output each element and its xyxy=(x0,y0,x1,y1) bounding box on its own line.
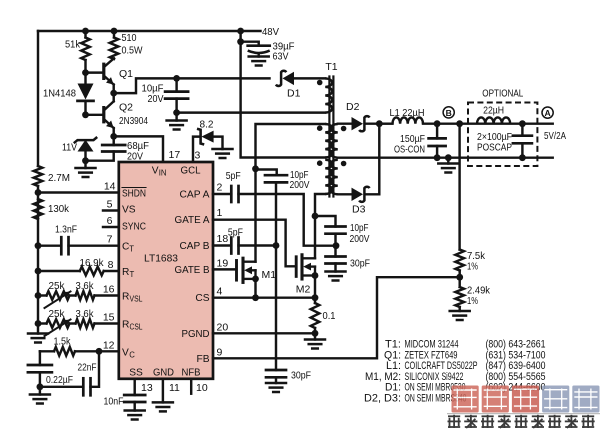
T1 primary winding 3 xyxy=(325,160,332,194)
ground below 0.1 xyxy=(305,338,325,341)
op-amp U1 LT1683 controller IC xyxy=(119,162,213,379)
svg-text:T: T xyxy=(130,270,135,279)
svg-text:16.9k: 16.9k xyxy=(80,257,105,269)
zener diode 8.2 xyxy=(197,129,204,145)
svg-text:0.5W: 0.5W xyxy=(122,45,143,57)
capacitor 1.3nF xyxy=(60,237,63,254)
node 0.22uF bottom xyxy=(37,383,44,390)
svg-text:7: 7 xyxy=(107,234,113,246)
watermark underline xyxy=(447,413,600,415)
svg-text:V: V xyxy=(152,166,159,177)
phase dot winding 2 xyxy=(317,125,323,131)
resistor 3.6k xyxy=(76,291,95,300)
node 510 top xyxy=(111,28,118,35)
ground below GND pin xyxy=(153,401,173,404)
svg-text:9: 9 xyxy=(217,346,223,358)
svg-text:18: 18 xyxy=(217,233,229,245)
node SHDN tap xyxy=(35,189,42,196)
svg-text:OS-CON: OS-CON xyxy=(394,144,425,156)
svg-text:VS: VS xyxy=(122,205,136,216)
svg-text:C: C xyxy=(129,350,135,359)
svg-text:0.22µF: 0.22µF xyxy=(46,374,73,386)
svg-text:51k: 51k xyxy=(65,39,81,51)
svg-text:3: 3 xyxy=(195,150,201,162)
resistor 3.6k xyxy=(76,319,95,328)
svg-text:FB: FB xyxy=(196,354,209,365)
svg-text:VSL: VSL xyxy=(130,295,144,304)
svg-text:Q1: Q1 xyxy=(119,68,133,80)
svg-text:V: V xyxy=(122,347,129,358)
node 11V anode / 68uF bottom xyxy=(82,157,89,164)
svg-text:15: 15 xyxy=(103,312,115,324)
ground below 11V zener xyxy=(76,167,96,170)
svg-text:63V: 63V xyxy=(273,51,289,63)
wire M2 source to CS xyxy=(314,276,316,298)
svg-text:20V: 20V xyxy=(127,150,143,162)
svg-text:1%: 1% xyxy=(467,295,478,307)
node Q1 base / 1N4148 top xyxy=(82,69,89,76)
potentiometer 25k element xyxy=(47,291,70,300)
svg-text:6: 6 xyxy=(107,215,113,227)
node 0.1 bottom xyxy=(312,330,319,337)
wire 48V top rail xyxy=(38,30,261,32)
node divider tap xyxy=(456,274,463,281)
svg-text:8.2: 8.2 xyxy=(200,118,214,130)
wire to L1 xyxy=(379,122,392,124)
capacitor 30pF (lower) xyxy=(266,369,286,372)
wire VIN pin 17 xyxy=(114,136,163,162)
node 48V branch xyxy=(237,28,244,35)
wire Q2 base xyxy=(86,114,104,116)
capacitor 10pF 200V (B-side) xyxy=(326,225,346,228)
ground below 10nF xyxy=(125,409,145,412)
transformer T1 core xyxy=(328,77,330,197)
wire SHDN pin 14 xyxy=(38,191,119,193)
svg-text:T: T xyxy=(129,245,134,254)
node POSCAP top xyxy=(519,120,526,127)
svg-text:CSL: CSL xyxy=(130,323,144,332)
svg-text:22µH: 22µH xyxy=(483,105,504,117)
svg-text:5: 5 xyxy=(107,199,113,211)
wire PGND pin 20 xyxy=(213,332,315,334)
zener diode 11V xyxy=(74,137,97,143)
wire M2 drain tap to C 10pF 200V (B-side) xyxy=(315,216,336,227)
svg-text:Q2: Q2 xyxy=(119,102,133,114)
svg-text:NFB: NFB xyxy=(182,368,201,379)
pin 5 VS stub xyxy=(103,209,119,211)
dashed OPTIONAL box xyxy=(468,103,537,167)
node RT tap xyxy=(35,268,42,275)
svg-text:3.6k: 3.6k xyxy=(76,308,95,320)
inductor L1 22uH xyxy=(393,117,424,123)
wire FB pin 9 to divider tap xyxy=(213,277,460,358)
wire output rail xyxy=(423,122,553,124)
phase dot secondary 2 xyxy=(341,161,347,167)
svg-text:M1: M1 xyxy=(262,269,277,281)
wire CS pin 4 xyxy=(213,296,315,298)
node A divider junction xyxy=(333,242,340,249)
node CT tap xyxy=(35,242,42,249)
node A circle xyxy=(542,107,553,118)
svg-text:16: 16 xyxy=(103,284,115,296)
wiper arrow xyxy=(45,292,71,309)
node FB divider tap xyxy=(456,120,463,127)
capacitor 10pF 200V (A-side) xyxy=(265,174,287,177)
pin 11 GND stub xyxy=(162,379,164,403)
svg-text:10nF: 10nF xyxy=(104,396,124,408)
capacitor 0.22uF xyxy=(39,351,41,365)
T1 primary winding 2 xyxy=(325,124,332,158)
wire CAP A to divider node A xyxy=(239,194,336,246)
svg-text:1: 1 xyxy=(217,207,223,219)
svg-text:R: R xyxy=(122,320,129,331)
svg-text:T1: T1 xyxy=(325,61,337,73)
svg-text:13: 13 xyxy=(141,382,153,394)
svg-text:20: 20 xyxy=(217,321,229,333)
resistor 510 0.5W xyxy=(113,31,115,38)
svg-text:1N4148: 1N4148 xyxy=(43,88,76,100)
wire GATE B pin 19 to M1 gate xyxy=(213,268,236,270)
T1 primary winding 1 xyxy=(325,78,332,112)
ground below 10uF xyxy=(167,119,187,122)
svg-text:SHDN: SHDN xyxy=(122,189,146,200)
svg-text:22nF: 22nF xyxy=(78,361,97,373)
wire RT pin 8 xyxy=(38,270,80,272)
ground output return xyxy=(438,162,458,165)
svg-text:12: 12 xyxy=(103,339,115,351)
svg-text:510: 510 xyxy=(122,32,137,44)
svg-text:SS: SS xyxy=(129,368,143,379)
wire bias rail to D1 xyxy=(114,78,270,93)
ground below 30pF node A xyxy=(326,270,346,273)
diode D3 xyxy=(352,188,364,201)
diode 1N4148 xyxy=(84,73,86,84)
svg-text:CS: CS xyxy=(195,293,209,304)
node 51k top xyxy=(82,28,89,35)
svg-text:5pF: 5pF xyxy=(226,170,241,182)
pin 13 SS stub xyxy=(133,379,135,395)
svg-text:14: 14 xyxy=(104,181,116,193)
capacitor 10nF xyxy=(124,394,145,397)
svg-text:3.6k: 3.6k xyxy=(76,280,95,292)
node Q1 emitter / Q2 collector xyxy=(110,90,117,97)
svg-text:1%: 1% xyxy=(467,260,478,272)
T1 secondary winding 1 xyxy=(331,124,338,158)
capacitor 30pF (node A) xyxy=(326,255,346,258)
transistor Q1 xyxy=(102,64,105,78)
potentiometer RCSL 25k + resistor 3.6k xyxy=(35,320,42,327)
watermark slogan characters xyxy=(448,415,595,428)
transistor M2 MOSFET xyxy=(295,257,298,277)
svg-text:GATE B: GATE B xyxy=(175,265,210,276)
wire CAP A pin 2 xyxy=(213,193,231,195)
wire CT pin 7 xyxy=(38,244,61,246)
ground below 39uF xyxy=(249,55,269,58)
capacitor 5pF B xyxy=(230,238,233,254)
svg-text:M2: M2 xyxy=(296,284,311,296)
svg-text:A: A xyxy=(544,108,550,118)
wire Q1 base xyxy=(86,71,104,73)
svg-text:30pF: 30pF xyxy=(291,369,311,381)
wire output to 7.5k xyxy=(458,124,460,250)
svg-text:D2, D3:: D2, D3: xyxy=(364,393,401,405)
diode D1 xyxy=(283,72,295,85)
capacitor 68uF 20V xyxy=(112,136,114,145)
svg-text:11V: 11V xyxy=(62,142,77,154)
capacitor 5pF A xyxy=(230,186,233,202)
wire CAP B pin 18 xyxy=(213,244,231,246)
node M2 source / 0.1 top xyxy=(312,294,319,301)
node M2 drain tap xyxy=(312,213,319,220)
ground below 2.49k xyxy=(450,310,470,313)
node 10uF top xyxy=(173,75,180,82)
svg-text:30pF: 30pF xyxy=(350,258,370,270)
phase dot winding 1 xyxy=(317,80,323,86)
svg-text:130k: 130k xyxy=(48,203,70,215)
svg-text:200V: 200V xyxy=(290,179,310,191)
wire M1 source to CS xyxy=(254,279,256,298)
wire M2 drain to winding3 bottom xyxy=(315,194,325,258)
capacitor 10uF 20V xyxy=(175,78,177,91)
svg-text:19: 19 xyxy=(217,257,229,269)
svg-text:5V/2A: 5V/2A xyxy=(544,130,566,142)
svg-text:25k: 25k xyxy=(49,280,66,292)
capacitor 2x100uF POSCAP xyxy=(521,124,523,136)
node 150uF top xyxy=(434,120,441,127)
svg-text:GND: GND xyxy=(153,368,174,379)
wire to C 39uF xyxy=(241,42,259,46)
wire D1 anode to winding1 top xyxy=(294,77,325,79)
transistor M1 MOSFET xyxy=(235,261,238,281)
resistor 130k xyxy=(34,199,43,219)
T1 secondary winding 2 xyxy=(331,160,338,195)
svg-text:CAP A: CAP A xyxy=(180,190,210,201)
ground left rail bottom xyxy=(28,332,48,335)
svg-text:SYNC: SYNC xyxy=(122,222,146,233)
svg-text:25k: 25k xyxy=(49,308,66,320)
node B divider junction xyxy=(273,242,280,249)
ground below lower 30pF xyxy=(266,382,286,385)
svg-text:R: R xyxy=(122,292,129,303)
wire VC pin 12 xyxy=(75,350,119,352)
transistor Q2 xyxy=(102,108,105,122)
svg-text:10: 10 xyxy=(196,382,208,394)
capacitor 150uF OS-CON xyxy=(436,124,438,139)
wire left rail upper xyxy=(37,31,39,166)
wire to C 10pF 200V (A-side) xyxy=(256,170,277,176)
wire M1 drain to winding2 top xyxy=(256,124,326,262)
svg-text:1.3nF: 1.3nF xyxy=(55,224,77,236)
wire D3 cathode up to L1 xyxy=(366,124,379,195)
node rectifier output xyxy=(376,120,383,127)
svg-text:2.7M: 2.7M xyxy=(48,172,70,184)
phase dot secondary 1 xyxy=(341,126,347,132)
diode D2 xyxy=(352,117,364,130)
svg-text:GATE A: GATE A xyxy=(175,215,210,226)
svg-text:GCL: GCL xyxy=(181,166,201,177)
svg-text:B: B xyxy=(446,108,452,118)
wire secondary2 bottom to D3 xyxy=(338,193,352,195)
wire left rail lower xyxy=(37,186,39,334)
svg-text:R: R xyxy=(122,267,129,278)
svg-text:D1: D1 xyxy=(287,88,301,100)
node 10pF-A tap on M1 drain xyxy=(252,165,259,172)
resistor 16.9k xyxy=(80,267,104,276)
pin 10 NFB stub xyxy=(190,379,192,394)
wire GCL pin 3 xyxy=(193,137,200,162)
node 39uF tap xyxy=(237,38,244,45)
svg-text:0.1: 0.1 xyxy=(323,310,336,322)
node M1 source on CS xyxy=(252,294,259,301)
node return ground xyxy=(445,154,452,161)
svg-text:POSCAP: POSCAP xyxy=(477,141,512,153)
node Q2 base / 11V zener xyxy=(82,111,89,118)
node B circle xyxy=(443,107,454,118)
phase dot winding 3 xyxy=(317,160,323,166)
svg-text:LT1683: LT1683 xyxy=(144,253,178,265)
wire GATE A pin 1 to M2 gate xyxy=(213,220,295,267)
wire output return rail xyxy=(338,156,553,158)
svg-text:PGND: PGND xyxy=(182,329,210,340)
svg-text:48V: 48V xyxy=(262,26,279,38)
svg-text:D2: D2 xyxy=(346,101,360,113)
wire 10pF-A bottom through node B down to 30pF xyxy=(275,182,277,370)
svg-text:20V: 20V xyxy=(148,93,164,105)
node Q2 emitter / 68uF / VIN xyxy=(110,133,117,140)
svg-text:200V: 200V xyxy=(350,233,370,245)
svg-text:17: 17 xyxy=(169,149,181,161)
resistor 51k xyxy=(84,31,86,38)
svg-text:CAP B: CAP B xyxy=(180,241,210,252)
potentiometer RVSL 25k + resistor 3.6k xyxy=(35,292,42,299)
resistor 2.7M xyxy=(34,166,43,186)
wire 48V to primary center tap xyxy=(241,31,326,158)
wire secondary1 top to D2 xyxy=(338,122,352,124)
svg-text:IN: IN xyxy=(159,169,167,178)
resistor 2.49k 1% xyxy=(455,287,464,307)
svg-text:2N3904: 2N3904 xyxy=(119,115,148,127)
ground below 8.2 zener xyxy=(213,148,233,151)
svg-text:OPTIONAL: OPTIONAL xyxy=(482,88,523,100)
capacitor 39uF 63V xyxy=(248,44,270,47)
svg-text:4: 4 xyxy=(217,286,223,298)
resistor 7.5k 1% xyxy=(455,250,464,271)
watermark red characters xyxy=(452,386,600,413)
node 22nF right xyxy=(96,348,103,355)
potentiometer 25k element xyxy=(47,319,70,328)
svg-text:11: 11 xyxy=(169,382,180,394)
svg-text:8: 8 xyxy=(108,259,114,271)
svg-text:D3: D3 xyxy=(352,204,366,216)
resistor 0.1 sense xyxy=(311,303,320,328)
wire winding1 bottom xyxy=(177,111,326,113)
svg-text:2: 2 xyxy=(217,182,223,194)
node 10uF bottom / winding1 return xyxy=(173,109,180,116)
wiper arrow xyxy=(45,320,71,337)
ground below 0.22uF xyxy=(30,393,50,396)
pin 6 SYNC stub xyxy=(103,226,119,228)
inductor optional 22uH xyxy=(477,117,510,123)
